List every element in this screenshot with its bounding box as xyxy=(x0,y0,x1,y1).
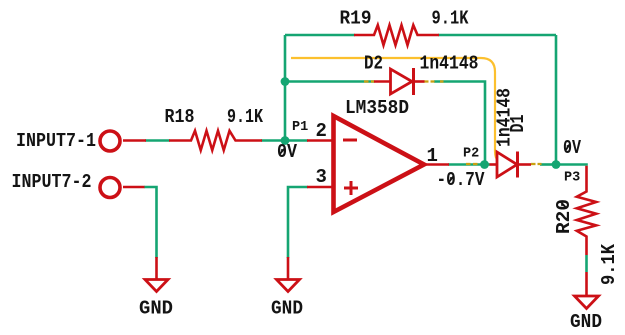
svg-text:INPUT7-2: INPUT7-2 xyxy=(12,171,92,193)
svg-text:0V: 0V xyxy=(277,141,298,163)
svg-text:-0.7V: -0.7V xyxy=(437,169,485,191)
svg-text:LM358D: LM358D xyxy=(345,97,409,119)
svg-text:INPUT7-1: INPUT7-1 xyxy=(16,130,96,152)
svg-text:9.1K: 9.1K xyxy=(227,106,263,128)
svg-text:0V: 0V xyxy=(563,137,581,159)
svg-text:D2: D2 xyxy=(364,53,383,75)
svg-text:R18: R18 xyxy=(165,106,195,128)
svg-text:P1: P1 xyxy=(292,120,308,135)
svg-text:9.1K: 9.1K xyxy=(598,243,620,285)
svg-text:GND: GND xyxy=(570,311,602,333)
svg-text:P3: P3 xyxy=(564,171,580,186)
svg-text:GND: GND xyxy=(139,298,173,320)
svg-text:P2: P2 xyxy=(463,147,479,162)
svg-text:D1: D1 xyxy=(507,115,529,133)
svg-text:1: 1 xyxy=(427,145,438,167)
svg-text:9.1K: 9.1K xyxy=(432,8,469,30)
svg-text:1n4148: 1n4148 xyxy=(420,53,479,75)
svg-text:3: 3 xyxy=(316,166,327,188)
svg-text:R19: R19 xyxy=(340,8,372,30)
svg-text:GND: GND xyxy=(271,298,303,320)
svg-text:2: 2 xyxy=(316,120,327,142)
